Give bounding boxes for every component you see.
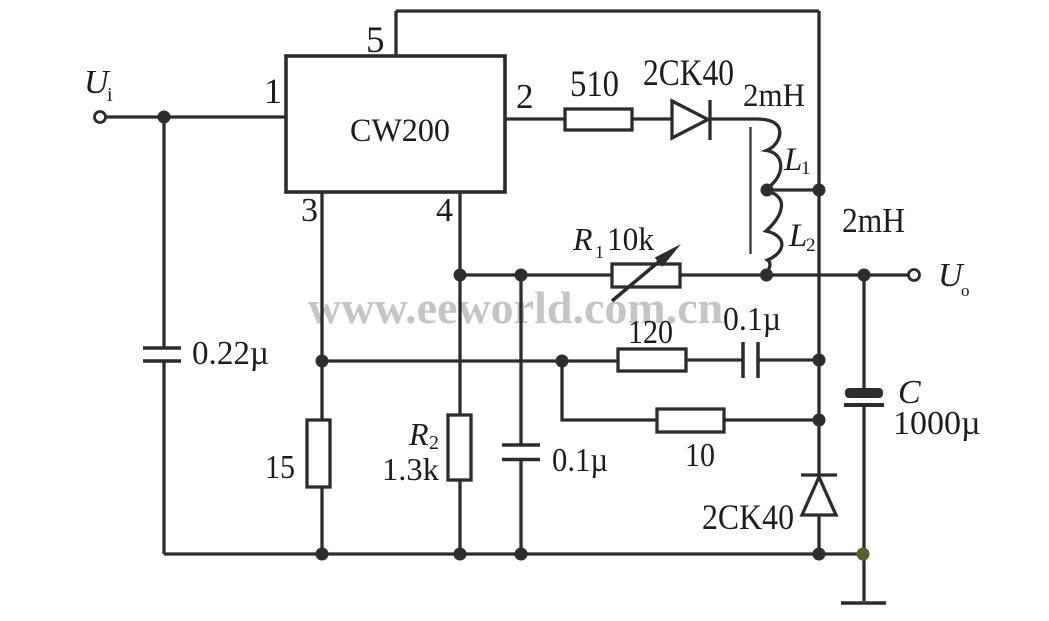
wire 120 to cap 0.1u: [686, 358, 743, 361]
svg-text:i: i: [107, 84, 113, 106]
wire bottom rail: [164, 552, 863, 555]
wire right rail: [817, 11, 820, 475]
svg-text:R: R: [572, 221, 593, 257]
node input junction: [158, 111, 171, 124]
wire pin 5 vertical: [394, 11, 397, 56]
svg-text:4: 4: [436, 192, 453, 229]
svg-text:3: 3: [301, 192, 318, 229]
node L2 bottom: [760, 269, 773, 282]
node pin3 bottom: [316, 548, 329, 561]
resistor 10: [657, 409, 724, 432]
wire C branch down: [862, 275, 865, 388]
wire R1 to output: [680, 273, 908, 276]
resistor 15: [307, 420, 330, 487]
diode 2CK40 bottom: [801, 473, 837, 476]
capacitor 0.1u series plates: [743, 342, 758, 378]
wire diode to inductor L1: [710, 117, 756, 120]
wire cap to rail: [758, 358, 819, 361]
svg-text:1: 1: [264, 71, 282, 111]
potentiometer R1 box: [612, 264, 680, 287]
wire R1 line left: [460, 273, 612, 276]
inductor L1: [756, 119, 781, 190]
wire 0.1u drop vertical: [519, 275, 522, 554]
svg-text:L: L: [788, 218, 807, 254]
svg-text:2mH: 2mH: [842, 201, 905, 240]
capacitor C 1000u top plate: [845, 388, 883, 398]
svg-text:2CK40: 2CK40: [643, 53, 734, 94]
node bottom rail right end (olive): [857, 548, 870, 561]
node tap on rail: [813, 184, 826, 197]
svg-text:2: 2: [516, 77, 534, 116]
ground: [841, 601, 886, 605]
terminal Ui circle: [95, 112, 106, 123]
potentiometer R1 arrow: [612, 254, 668, 301]
wire 10 to rail: [724, 418, 819, 421]
node diode bottom: [813, 548, 826, 561]
node pin4 bottom: [454, 548, 467, 561]
wire diode to bottom rail: [817, 515, 820, 554]
op-amp U1 CW200 box: [286, 56, 505, 192]
diode 2CK40 top: [672, 101, 708, 138]
svg-text:2: 2: [806, 235, 816, 256]
resistor R2 1.3k: [448, 415, 471, 480]
node 0.1u bottom: [515, 548, 528, 561]
svg-text:CW200: CW200: [350, 113, 450, 149]
svg-text:1: 1: [801, 158, 811, 179]
svg-text:0.22µ: 0.22µ: [192, 335, 269, 372]
wire pin 3 down: [320, 192, 323, 554]
node 10-branch start: [556, 355, 569, 368]
node 0.1u drop on R1 line: [515, 269, 528, 282]
capacitor 0.22u plates: [143, 348, 181, 361]
wire top feedback from pin 5 to right rail: [396, 9, 819, 12]
svg-text:10: 10: [685, 437, 715, 474]
capacitor 0.1u left plates: [502, 445, 540, 460]
node C branch: [858, 269, 871, 282]
svg-text:0.1µ: 0.1µ: [723, 301, 781, 338]
inductor L2: [766, 191, 782, 274]
svg-text:120: 120: [628, 314, 673, 351]
svg-text:1000µ: 1000µ: [893, 405, 981, 442]
node L1-L2 tap: [761, 184, 774, 197]
svg-text:510: 510: [570, 64, 619, 105]
svg-text:0.1µ: 0.1µ: [552, 442, 608, 479]
wire input Ui to pin 1: [106, 115, 286, 118]
svg-text:1.3k: 1.3k: [382, 451, 439, 487]
node rail y420: [813, 414, 826, 427]
wire capacitor 0.22u down to bottom rail: [162, 361, 165, 554]
node R1 line start on pin4 wire: [454, 269, 467, 282]
wire 10-branch down and right: [562, 361, 657, 420]
node rail y360: [813, 354, 826, 367]
svg-text:10k: 10k: [607, 222, 654, 258]
svg-text:2mH: 2mH: [743, 78, 805, 114]
svg-text:L: L: [783, 142, 802, 178]
inductor core line: [749, 127, 751, 254]
wire pin 4 down: [458, 192, 461, 554]
svg-text:15: 15: [265, 449, 295, 486]
svg-text:o: o: [961, 281, 970, 300]
svg-text:2CK40: 2CK40: [702, 497, 794, 537]
node pin3 junction y360: [316, 355, 329, 368]
wire y360 from pin3 to 120: [322, 359, 618, 362]
capacitor C 1000u bottom plate: [844, 403, 884, 407]
svg-text:5: 5: [366, 20, 385, 61]
resistor 510: [565, 109, 632, 130]
resistor 120: [618, 349, 686, 371]
wire tap to rail: [767, 188, 819, 191]
svg-text:1: 1: [595, 242, 604, 262]
wire resistor 510 to diode: [632, 117, 672, 120]
svg-text:R: R: [408, 416, 429, 452]
wire pin 2 to resistor 510: [505, 117, 565, 120]
terminal Uo circle: [909, 270, 920, 281]
wire C to bottom rail and ground: [862, 405, 865, 601]
wire input node down to capacitor 0.22u: [162, 117, 165, 348]
